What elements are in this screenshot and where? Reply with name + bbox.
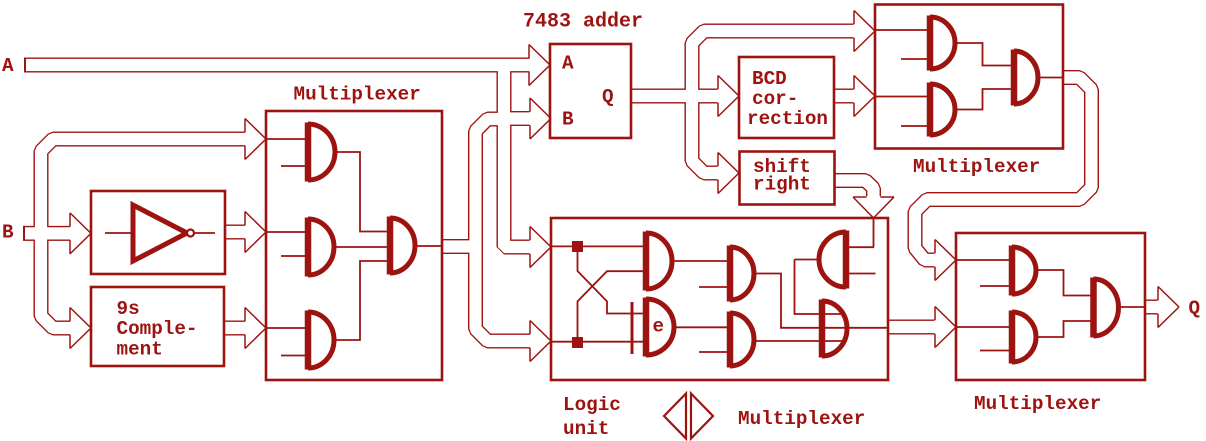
svg-text:Logic: Logic [563, 394, 621, 416]
svg-text:ment: ment [117, 339, 163, 361]
svg-text:rection: rection [747, 108, 828, 130]
svg-text:Multiplexer: Multiplexer [974, 393, 1101, 415]
svg-text:9s: 9s [117, 298, 140, 320]
svg-text:A: A [2, 55, 14, 77]
svg-text:B: B [562, 109, 574, 131]
svg-text:Q: Q [602, 86, 614, 108]
svg-text:Multiplexer: Multiplexer [913, 156, 1040, 178]
svg-text:B: B [2, 222, 14, 244]
svg-text:A: A [562, 53, 574, 75]
svg-text:unit: unit [563, 418, 609, 440]
svg-text:Multiplexer: Multiplexer [294, 84, 421, 106]
svg-text:Multiplexer: Multiplexer [738, 408, 865, 430]
svg-text:cor-: cor- [752, 88, 798, 110]
svg-text:right: right [753, 173, 811, 195]
svg-text:BCD: BCD [752, 68, 787, 90]
svg-text:Comple-: Comple- [117, 318, 198, 340]
svg-text:Q: Q [1189, 298, 1201, 320]
svg-text:7483 adder: 7483 adder [523, 11, 643, 34]
svg-text:e: e [653, 316, 665, 338]
